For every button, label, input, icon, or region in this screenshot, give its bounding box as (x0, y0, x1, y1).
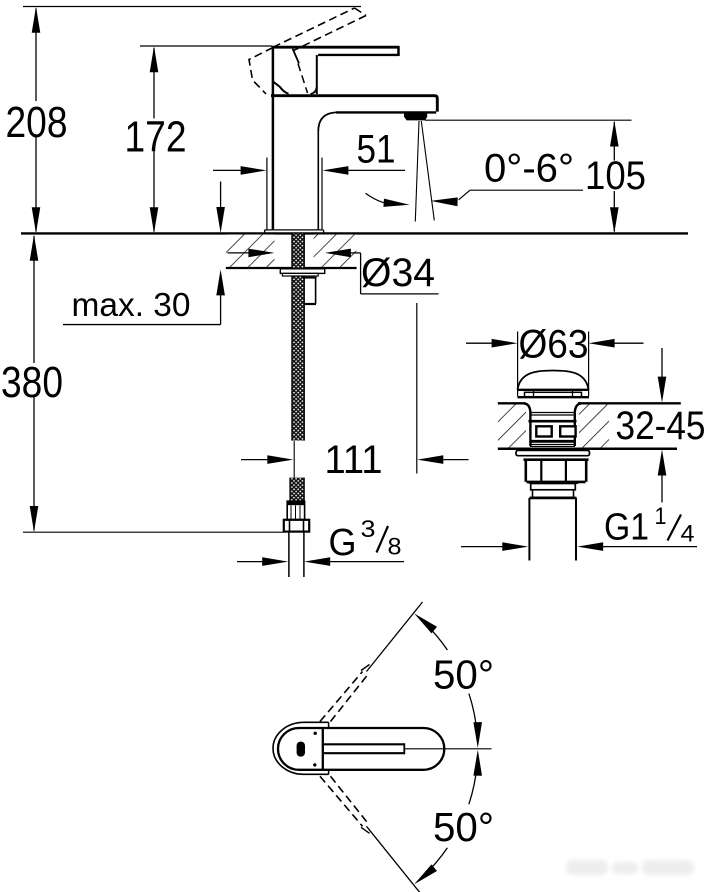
svg-text:4: 4 (681, 521, 695, 548)
svg-text:32-45: 32-45 (616, 404, 706, 448)
svg-text:50°: 50° (433, 652, 494, 698)
svg-text:G: G (329, 522, 357, 564)
svg-text:51: 51 (357, 128, 396, 172)
svg-text:8: 8 (388, 534, 402, 561)
svg-text:G1: G1 (604, 507, 649, 549)
svg-text:172: 172 (125, 113, 187, 162)
svg-text:3: 3 (361, 516, 376, 543)
svg-text:Ø63: Ø63 (519, 323, 589, 367)
svg-text:105: 105 (585, 154, 646, 198)
svg-text:1: 1 (655, 503, 667, 530)
svg-text:380: 380 (1, 358, 63, 407)
svg-text:0°-6°: 0°-6° (484, 147, 574, 191)
svg-text:max. 30: max. 30 (72, 286, 191, 323)
svg-text:Ø34: Ø34 (361, 251, 435, 295)
svg-text:208: 208 (6, 98, 68, 147)
svg-text:111: 111 (325, 438, 383, 482)
svg-text:50°: 50° (433, 804, 494, 850)
